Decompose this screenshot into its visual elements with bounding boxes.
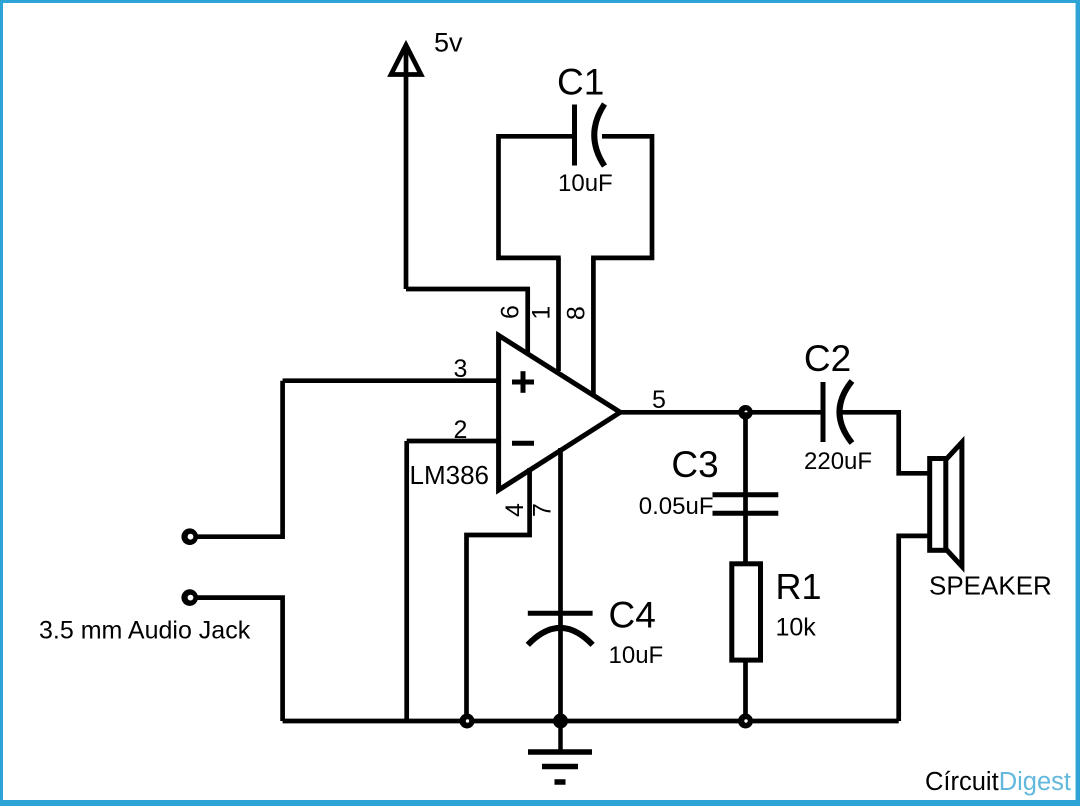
wire tip to pin 3 <box>197 381 283 537</box>
ground bus wire <box>283 719 899 724</box>
capacitor C4 <box>528 613 593 645</box>
wire R1 to ground bus <box>743 660 748 721</box>
svg-text:6: 6 <box>497 305 525 319</box>
wire pin 3 input <box>283 378 497 383</box>
wire speaker bottom to ground bus <box>899 536 930 721</box>
svg-text:10uF: 10uF <box>558 170 613 197</box>
op-amp plus input mark <box>512 371 534 393</box>
wire pin 1 <box>556 258 561 371</box>
capacitor C3 <box>713 495 779 514</box>
svg-text:8: 8 <box>563 306 591 320</box>
svg-text:CírcuitDigest: CírcuitDigest <box>925 768 1071 796</box>
capacitor C2 <box>823 381 852 443</box>
svg-text:220uF: 220uF <box>804 448 872 475</box>
svg-text:5v: 5v <box>434 28 463 58</box>
svg-text:1: 1 <box>527 306 555 320</box>
wire output to C3/R1 branch <box>743 412 748 566</box>
svg-text:SPEAKER: SPEAKER <box>929 571 1052 601</box>
svg-text:C2: C2 <box>804 338 851 379</box>
svg-text:C4: C4 <box>609 595 656 636</box>
op-amp minus input mark <box>512 441 534 446</box>
svg-text:0.05uF: 0.05uF <box>639 493 714 520</box>
svg-text:C3: C3 <box>671 444 718 485</box>
junction output node <box>738 405 753 420</box>
op-amp U1 LM386 <box>499 335 621 490</box>
audio jack terminal tip <box>181 528 198 545</box>
wire pin 2 to ground bus <box>404 441 409 721</box>
junction C4 ground <box>553 714 568 729</box>
wire pin 7 down through C4 <box>558 448 563 721</box>
svg-text:7: 7 <box>529 503 557 517</box>
ground symbol <box>528 721 592 782</box>
capacitor C1 <box>575 104 605 166</box>
wire C1 loop right <box>591 136 652 258</box>
wire sleeve to ground bus <box>197 598 283 721</box>
speaker LS1 <box>930 442 962 566</box>
svg-text:R1: R1 <box>776 566 822 607</box>
wire C1 loop left <box>499 136 573 258</box>
svg-text:C1: C1 <box>557 62 604 103</box>
wire 5v to pin 6 <box>406 289 528 353</box>
svg-text:10uF: 10uF <box>609 642 664 669</box>
wire C2 to speaker top <box>842 412 930 473</box>
svg-text:10k: 10k <box>776 614 817 642</box>
wire pin 2 input <box>407 439 497 444</box>
5v supply arrow <box>391 45 421 289</box>
wire pin 8 <box>591 258 596 394</box>
svg-text:2: 2 <box>454 416 468 444</box>
svg-text:3.5 mm Audio Jack: 3.5 mm Audio Jack <box>39 617 251 645</box>
svg-text:3: 3 <box>454 355 468 383</box>
svg-text:LM386: LM386 <box>410 460 490 490</box>
svg-text:5: 5 <box>652 386 666 414</box>
svg-text:4: 4 <box>501 503 529 517</box>
junction R1 bottom <box>738 714 753 729</box>
wire pin 4 to ground bus <box>467 468 530 721</box>
resistor R1 <box>732 564 761 660</box>
junction pin4 branch <box>460 714 475 729</box>
audio jack terminal sleeve <box>181 589 198 606</box>
wire pin 5 output <box>620 410 821 415</box>
